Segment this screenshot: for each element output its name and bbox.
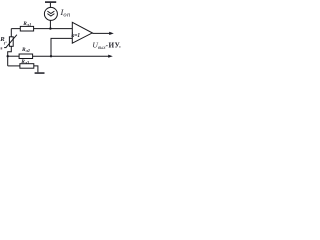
wire bottom rail — [8, 65, 20, 67]
wire thermistor top lead — [10, 29, 12, 37]
current source I1 circle — [44, 7, 57, 20]
wire to ground — [34, 66, 38, 72]
svg-text:Uвых-ИУ.: Uвых-ИУ. — [92, 41, 121, 52]
wire thermistor bottom lead — [8, 46, 12, 66]
resistor Rl3 — [20, 64, 34, 68]
thermistor Rt body — [9, 37, 13, 47]
power rail bar — [45, 1, 56, 3]
node junction dot A — [49, 27, 51, 29]
node junction dot C — [50, 55, 52, 57]
arrowhead output — [109, 32, 114, 35]
thermistor foot — [4, 47, 6, 49]
wire op-amp output — [92, 32, 110, 34]
wire middle rail right — [33, 55, 110, 57]
stray mark below Rt label — [1, 47, 3, 49]
resistor Rl1 — [20, 26, 33, 31]
svg-text:Rt°: Rt° — [0, 36, 7, 45]
svg-text:Rл2: Rл2 — [21, 47, 30, 53]
current source chevron 1 — [47, 11, 54, 13]
wire upper rail — [11, 28, 72, 30]
svg-text:Rл1: Rл1 — [22, 21, 31, 27]
wire middle rail left — [8, 55, 19, 57]
svg-text:Iоп: Iоп — [60, 7, 71, 19]
ground bar — [35, 72, 45, 74]
current source chevron 2 — [47, 14, 54, 16]
wire sense to amp lower input — [51, 38, 72, 56]
op-amp U1 triangle — [72, 22, 92, 43]
wire current source to node — [49, 20, 51, 28]
thermistor diagonal stroke — [6, 35, 17, 48]
svg-text:k=1: k=1 — [71, 33, 80, 39]
resistor Rl2 — [19, 54, 32, 59]
svg-text:Rл3: Rл3 — [20, 59, 29, 65]
node junction dot B — [7, 55, 9, 57]
arrowhead bottom rail — [108, 55, 113, 58]
wire bar to current source — [49, 3, 51, 8]
